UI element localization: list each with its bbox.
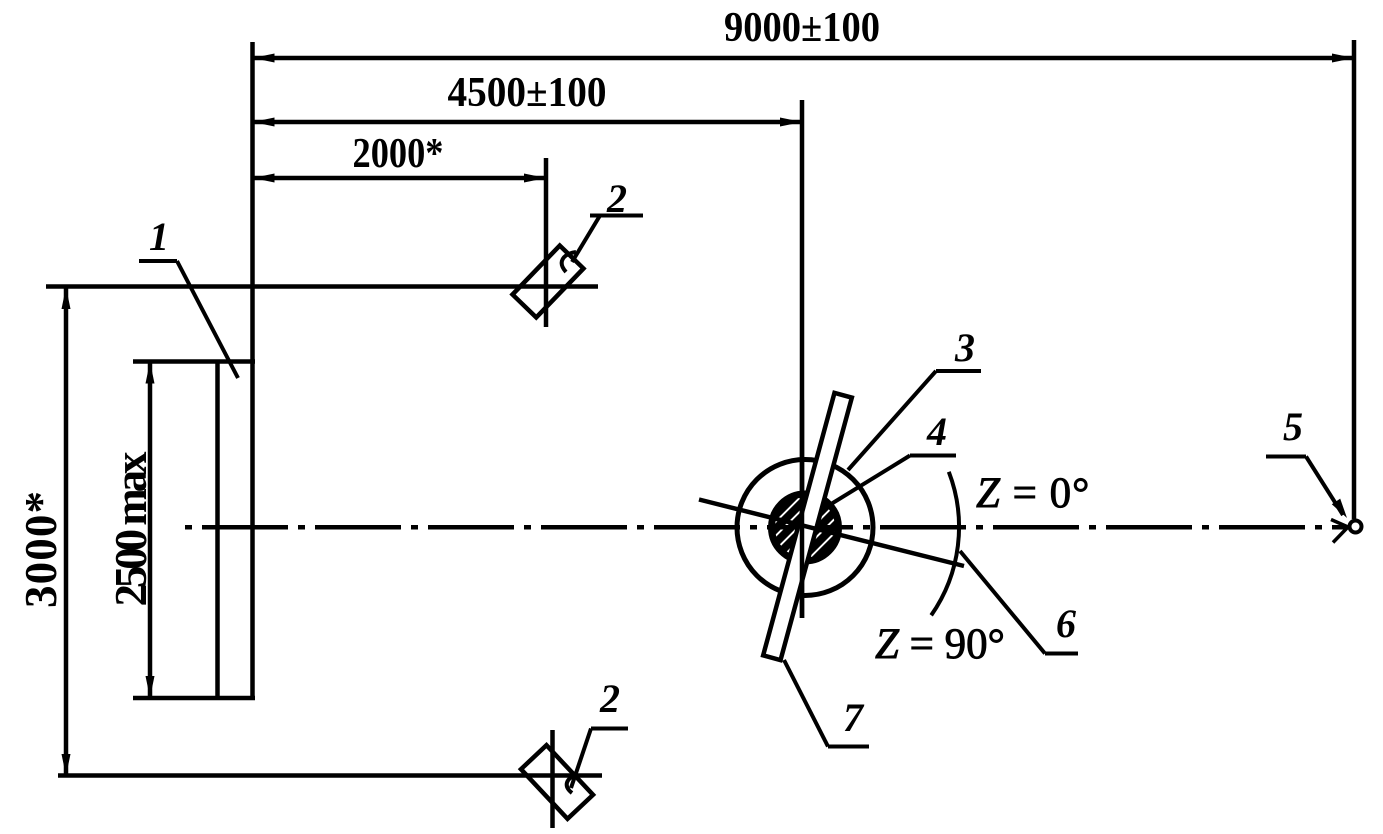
svg-text:2000*: 2000* [353,131,444,177]
svg-text:3: 3 [954,325,975,370]
svg-text:1: 1 [149,214,169,259]
extension line rotation-device vertical [800,100,805,618]
upper microphone horizontal line [46,284,598,289]
rotation device inner hub circle [772,494,839,561]
svg-text:4: 4 [926,409,947,454]
redraw device vertical over bar [800,400,805,618]
inclined line through device [699,500,964,567]
svg-text:7: 7 [843,695,865,740]
extension line lower microphone vertical [550,730,555,828]
label 5 with leader and arrow [1266,404,1347,518]
svg-text:9000±100: 9000±100 [724,5,880,51]
label 4 with leader [823,409,956,509]
svg-text:2: 2 [599,676,620,721]
extension line left reference (screen face) [250,42,255,700]
blade item 3 (tilted bar) [763,393,852,660]
center axis dash-dot [185,525,1345,530]
label 1 with leader [139,214,238,378]
upper microphone item 2 symbol [513,246,584,318]
label 6 with leader [960,551,1078,654]
rotation device outer circle [737,460,873,596]
extension line upper microphone vertical [544,158,549,327]
dimension 9000±100 [253,5,1355,63]
lower microphone horizontal line [58,773,602,778]
dimension 3000* vertical [16,287,71,776]
svg-text:Z = 0°: Z = 0° [976,470,1090,517]
svg-text:4500±100: 4500±100 [448,70,607,116]
label 7 with leader [784,660,869,747]
dimension 2500 max [106,362,156,699]
hub hatching [685,478,925,578]
svg-text:2500 max: 2500 max [106,451,156,607]
screen item 1 rectangle [133,362,255,699]
label 3 with leader [848,325,981,470]
lower microphone item 2 symbol [521,745,593,819]
dimension 2000* [253,131,547,183]
label 2 upper with leader [562,176,643,272]
svg-text:6: 6 [1056,601,1076,646]
target point item 5 circle [1350,521,1362,533]
angle arc item 6 [931,472,959,616]
label 2 lower with leader [567,676,628,793]
dimension 4500±100 [253,70,803,127]
extension line right reference [1352,40,1357,519]
svg-text:5: 5 [1283,404,1303,449]
axis open arrow at item 5 [1331,520,1348,543]
svg-text:3000*: 3000* [16,491,66,608]
svg-text:Z = 90°: Z = 90° [875,621,1005,668]
